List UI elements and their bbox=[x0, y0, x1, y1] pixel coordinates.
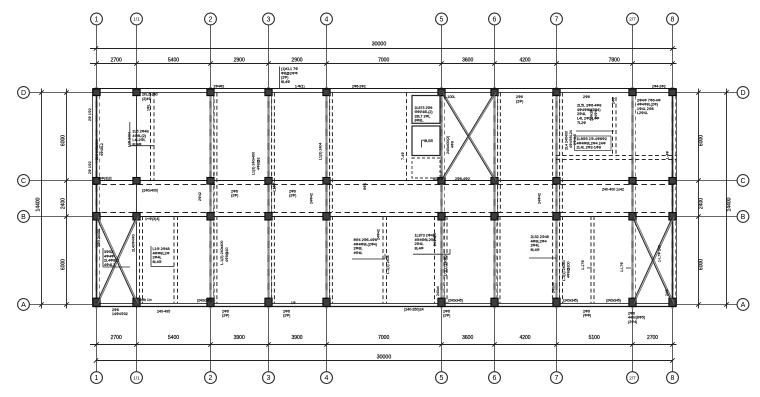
svg-text:2400: 2400 bbox=[61, 198, 67, 209]
svg-text:4200: 4200 bbox=[519, 57, 530, 63]
svg-text:5100: 5100 bbox=[589, 335, 600, 341]
svg-text:2Φ6-4Φ2: 2Φ6-4Φ2 bbox=[455, 177, 470, 181]
svg-text:D: D bbox=[21, 90, 26, 97]
svg-text:3Φ52: 3Φ52 bbox=[104, 250, 113, 254]
svg-text:24Φ42: 24Φ42 bbox=[310, 193, 314, 204]
svg-text:2700: 2700 bbox=[647, 335, 658, 341]
svg-text:1: 1 bbox=[95, 375, 99, 382]
svg-text:1L873 2Φ48: 1L873 2Φ48 bbox=[415, 234, 435, 238]
svg-text:L-1(1) 2404: L-1(1) 2404 bbox=[386, 255, 390, 274]
svg-text:240xΦ: 240xΦ bbox=[552, 282, 556, 293]
svg-text:(2Φ): (2Φ) bbox=[443, 314, 450, 318]
svg-text:7-4Φ: 7-4Φ bbox=[401, 152, 405, 160]
svg-text:5Φ4: 5Φ4 bbox=[363, 183, 367, 190]
svg-text:8Φ8L: 8Φ8L bbox=[415, 119, 424, 123]
svg-text:1-L7Φ 240: 1-L7Φ 240 bbox=[658, 245, 662, 262]
svg-text:L-1(3) 240x400: L-1(3) 240x400 bbox=[220, 241, 224, 265]
svg-text:240-495: 240-495 bbox=[157, 310, 170, 314]
svg-text:2Φ0 24400: 2Φ0 24400 bbox=[97, 229, 101, 247]
svg-text:(240x345): (240x345) bbox=[197, 298, 212, 302]
svg-text:7L2Φ: 7L2Φ bbox=[577, 121, 586, 125]
svg-text:(1)KL1 7Φ: (1)KL1 7Φ bbox=[281, 67, 298, 71]
svg-text:2Φ4-2Φ2: 2Φ4-2Φ2 bbox=[652, 85, 666, 89]
svg-text:L1Φ 2Φ48: L1Φ 2Φ48 bbox=[153, 247, 170, 251]
svg-text:4Φ8: 4Φ8 bbox=[451, 141, 455, 148]
svg-text:B: B bbox=[741, 214, 746, 221]
svg-text:4: 4 bbox=[325, 375, 329, 382]
svg-text:2: 2 bbox=[209, 17, 213, 24]
svg-text:L1(3) 240x400: L1(3) 240x400 bbox=[252, 152, 256, 175]
svg-text:(240x345): (240x345) bbox=[448, 299, 463, 303]
svg-text:30000: 30000 bbox=[372, 41, 387, 47]
svg-text:A: A bbox=[741, 302, 746, 309]
svg-text:2Φ 1Φ2: 2Φ 1Φ2 bbox=[88, 108, 92, 121]
svg-text:1-100L: 1-100L bbox=[444, 95, 455, 99]
svg-text:1/1: 1/1 bbox=[133, 17, 140, 22]
svg-text:7800: 7800 bbox=[609, 57, 620, 63]
svg-text:(2Φ): (2Φ) bbox=[222, 314, 229, 318]
svg-text:5400: 5400 bbox=[168, 335, 179, 341]
svg-text:(240-260)24: (240-260)24 bbox=[404, 308, 424, 312]
svg-text:L-1(1) 24040: L-1(1) 24040 bbox=[444, 255, 448, 276]
svg-text:6: 6 bbox=[493, 17, 497, 24]
svg-text:L2Φ4L: L2Φ4L bbox=[637, 111, 648, 115]
svg-text:6000: 6000 bbox=[61, 259, 67, 270]
svg-text:3600: 3600 bbox=[462, 57, 473, 63]
svg-text:2/7: 2/7 bbox=[629, 17, 636, 22]
svg-text:8L4Φ: 8L4Φ bbox=[281, 80, 290, 84]
svg-text:(2Φ): (2Φ) bbox=[231, 194, 238, 198]
svg-text:3: 3 bbox=[267, 17, 271, 24]
svg-text:1-17Φ: 1-17Φ bbox=[581, 260, 585, 270]
svg-text:8L4Φ: 8L4Φ bbox=[153, 260, 162, 264]
svg-text:2: 2 bbox=[209, 375, 213, 382]
svg-text:(2Φ): (2Φ) bbox=[283, 314, 290, 318]
svg-text:(2Φ): (2Φ) bbox=[516, 99, 523, 103]
svg-text:6000: 6000 bbox=[61, 135, 67, 146]
svg-text:24Φ: 24Φ bbox=[665, 289, 669, 296]
svg-text:3600: 3600 bbox=[462, 335, 473, 341]
svg-text:4Φ4L2: 4Φ4L2 bbox=[104, 263, 115, 267]
svg-text:4Φ48L2: 4Φ48L2 bbox=[100, 143, 104, 156]
svg-text:2L5L 2Φ6-4Φ8: 2L5L 2Φ6-4Φ8 bbox=[577, 104, 601, 108]
svg-text:2L52 2Φ48: 2L52 2Φ48 bbox=[531, 235, 549, 239]
svg-text:2Φ4Φ2: 2Φ4Φ2 bbox=[214, 85, 225, 89]
svg-text:4Φ8@200: 4Φ8@200 bbox=[567, 261, 571, 278]
svg-text:1: 1 bbox=[95, 17, 99, 24]
svg-text:24Φ420: 24Φ420 bbox=[433, 233, 437, 246]
svg-text:24Φ: 24Φ bbox=[612, 97, 616, 104]
svg-text:1/1: 1/1 bbox=[133, 375, 140, 380]
svg-text:5: 5 bbox=[440, 375, 444, 382]
svg-text:14Φ4Φ32: 14Φ4Φ32 bbox=[112, 312, 128, 316]
svg-text:4200: 4200 bbox=[519, 335, 530, 341]
svg-text:2Φ6-2Φ2: 2Φ6-2Φ2 bbox=[352, 85, 366, 89]
svg-text:2/7: 2/7 bbox=[629, 375, 636, 380]
svg-text:5: 5 bbox=[440, 17, 444, 24]
svg-text:6: 6 bbox=[493, 375, 497, 382]
svg-text:1LB5: 1LB5 bbox=[424, 139, 433, 143]
svg-text:(2Φ): (2Φ) bbox=[289, 194, 296, 198]
svg-text:2Φ 1Φ2: 2Φ 1Φ2 bbox=[88, 161, 92, 174]
svg-text:(ΦΦ): (ΦΦ) bbox=[583, 314, 591, 318]
svg-text:8: 8 bbox=[671, 17, 675, 24]
svg-text:B: B bbox=[21, 214, 26, 221]
svg-text:1Φ: 1Φ bbox=[291, 301, 296, 305]
svg-text:7000: 7000 bbox=[378, 57, 389, 63]
svg-text:A: A bbox=[21, 302, 26, 309]
svg-text:L15Φ: L15Φ bbox=[273, 183, 277, 192]
svg-text:1L8Φ5 2Φ-4Φ8Φ2: 1L8Φ5 2Φ-4Φ8Φ2 bbox=[577, 137, 607, 141]
svg-text:1-Φ(1): 1-Φ(1) bbox=[295, 85, 305, 89]
svg-text:(240x345): (240x345) bbox=[606, 298, 621, 302]
svg-text:7: 7 bbox=[555, 375, 559, 382]
svg-text:7: 7 bbox=[555, 17, 559, 24]
svg-text:2900: 2900 bbox=[234, 57, 245, 63]
svg-text:24Φ42: 24Φ42 bbox=[538, 193, 542, 204]
svg-text:240x4: 240x4 bbox=[436, 286, 440, 296]
svg-text:2700: 2700 bbox=[111, 335, 122, 341]
svg-text:1x4x2Φ: 1x4x2Φ bbox=[590, 108, 594, 121]
svg-text:8Φ4 2Φ6-4Φ8: 8Φ4 2Φ6-4Φ8 bbox=[354, 238, 377, 242]
svg-text:C: C bbox=[21, 178, 26, 185]
svg-text:1+Φ(3)4]: 1+Φ(3)4] bbox=[145, 217, 159, 221]
svg-text:2L4 240400: 2L4 240400 bbox=[565, 131, 569, 150]
svg-text:240-400 1x42: 240-400 1x42 bbox=[602, 187, 624, 191]
svg-text:6000: 6000 bbox=[699, 135, 705, 146]
svg-text:2700: 2700 bbox=[111, 57, 122, 63]
svg-text:14400: 14400 bbox=[36, 197, 42, 211]
svg-text:5400: 5400 bbox=[168, 57, 179, 63]
svg-text:(2)4Φ: (2)4Φ bbox=[142, 97, 151, 101]
svg-text:2Φ42: 2Φ42 bbox=[198, 192, 202, 201]
svg-text:4: 4 bbox=[325, 17, 329, 24]
svg-text:2L5 2Φ48: 2L5 2Φ48 bbox=[132, 130, 148, 134]
svg-text:2L4L 2Φ2-1Φ8: 2L4L 2Φ2-1Φ8 bbox=[577, 146, 601, 150]
svg-text:14400: 14400 bbox=[727, 197, 733, 211]
svg-text:8L4Φ: 8L4Φ bbox=[415, 247, 424, 251]
svg-text:L-4Φ: L-4Φ bbox=[666, 151, 670, 159]
svg-text:L-1(1) 24040: L-1(1) 24040 bbox=[562, 260, 566, 281]
svg-text:30000: 30000 bbox=[377, 354, 392, 360]
svg-text:24Φ4: 24Φ4 bbox=[594, 110, 598, 119]
svg-text:xΦb 1m: xΦb 1m bbox=[140, 298, 152, 302]
svg-text:8L4Φ: 8L4Φ bbox=[531, 248, 540, 252]
svg-text:240x400(2): 240x400(2) bbox=[446, 136, 450, 154]
svg-text:24Φ42: 24Φ42 bbox=[377, 229, 381, 240]
svg-text:2400: 2400 bbox=[699, 198, 705, 209]
svg-text:1-Φ(3)2]: 1-Φ(3)2] bbox=[98, 177, 111, 181]
svg-text:(2Φ4): (2Φ4) bbox=[628, 320, 637, 324]
svg-text:4Φ4L: 4Φ4L bbox=[354, 251, 363, 255]
svg-text:L1(3) 2404: L1(3) 2404 bbox=[319, 143, 323, 160]
svg-text:D: D bbox=[740, 90, 745, 97]
svg-text:3900: 3900 bbox=[234, 335, 245, 341]
svg-text:6000: 6000 bbox=[699, 259, 705, 270]
svg-text:(240x345): (240x345) bbox=[563, 298, 578, 302]
svg-text:4Φ8@2: 4Φ8@2 bbox=[257, 157, 261, 170]
svg-text:1ΦL: 1ΦL bbox=[147, 104, 151, 111]
svg-text:2L5 240x400: 2L5 240x400 bbox=[95, 139, 99, 160]
svg-text:C: C bbox=[740, 178, 745, 185]
svg-text:3: 3 bbox=[267, 375, 271, 382]
svg-text:8: 8 bbox=[671, 375, 675, 382]
svg-text:4Φ8@20: 4Φ8@20 bbox=[225, 247, 229, 262]
svg-text:2900: 2900 bbox=[291, 57, 302, 63]
svg-text:2Φ6: 2Φ6 bbox=[583, 95, 590, 99]
svg-text:3900: 3900 bbox=[291, 335, 302, 341]
svg-text:2L40Φ4Φ0: 2L40Φ4Φ0 bbox=[132, 234, 136, 252]
svg-text:(240x400): (240x400) bbox=[142, 188, 158, 192]
svg-text:8-2Φ2: 8-2Φ2 bbox=[433, 177, 443, 181]
svg-text:1-L7Φ: 1-L7Φ bbox=[620, 262, 624, 272]
svg-text:7000: 7000 bbox=[378, 335, 389, 341]
